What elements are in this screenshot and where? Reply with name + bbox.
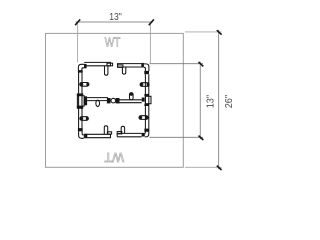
clamp band: left pipe top — [78, 70, 83, 73]
clamp frame: right sleeve wedge upper — [140, 83, 149, 87]
clamp frame: middle bar hanger oval left — [96, 100, 100, 106]
clamp frame: bottom-left corner elbow — [79, 131, 84, 138]
clamp frame: middle tie bar right half — [117, 100, 142, 103]
svg-text:13": 13" — [205, 95, 216, 109]
dimension 13in right: tick top — [199, 62, 204, 66]
clamp frame: top bar right end overlay plate — [118, 65, 123, 68]
clamp frame: bottom bar left wedge tab — [104, 126, 107, 135]
clamp frame: top-right corner elbow — [144, 64, 149, 71]
dimension 13in right: dimension line — [199, 62, 201, 140]
svg-text:WT: WT — [104, 150, 124, 164]
left sleeve lower dark caps — [80, 117, 83, 120]
clamp frame: top bar left end overlay plate — [107, 63, 113, 66]
clamp band: top-right junction — [141, 63, 144, 68]
dimension 26in right: dimension line — [218, 30, 220, 170]
dimension 26in right: extension line top — [185, 31, 222, 33]
clamp band: left pipe upper-middle — [77, 93, 83, 95]
left sleeve upper dark caps — [80, 83, 83, 86]
clamp frame: left sleeve wedge lower — [80, 117, 89, 121]
clamp frame: right sleeve wedge lower — [139, 116, 148, 120]
clamp frame: top-left corner elbow — [78, 64, 84, 70]
clamp band: left pipe lower-middle — [77, 106, 83, 109]
right sleeve lower dark caps — [139, 116, 142, 119]
clamp frame: top bar right segment — [118, 64, 142, 67]
middle tie bar right end plate — [142, 98, 145, 102]
clamp band: right pipe bottom — [144, 129, 149, 132]
right sleeve upper dark caps — [140, 83, 143, 86]
dimension 13in right: extension line top — [150, 63, 204, 65]
clamp band: right pipe upper-middle — [144, 94, 149, 96]
clamp band: left pipe bottom — [78, 128, 83, 131]
clamp band: right pipe lower-middle — [144, 104, 149, 106]
clamp band: bottom-left junction — [84, 134, 88, 138]
clamp frame: left clamp box — [77, 96, 84, 106]
svg-text:13": 13" — [109, 11, 122, 23]
clamp frame: bottom bar left end overlay plate — [107, 132, 111, 134]
center pin circle — [111, 98, 116, 103]
clamp frame: left pipe — [79, 70, 82, 131]
clamp band: right pipe top — [144, 71, 149, 74]
dimension 13in right: tick bottom — [199, 136, 204, 140]
clamp band: bottom-right junction — [142, 133, 145, 137]
clamp frame: right pipe — [145, 74, 148, 129]
dimension 13in top: tick left — [75, 19, 80, 25]
clamp frame: bottom bar left segment — [84, 134, 110, 137]
clamp frame: right clamp box — [145, 96, 151, 103]
hanger capsule right dark cap — [130, 93, 133, 96]
dimension 13in top: dimension line — [76, 21, 154, 23]
clamp frame: bottom bar right wedge tab — [121, 126, 124, 133]
middle tie bar left end plate — [84, 96, 87, 105]
clamp frame: top bar right wedge tab — [122, 67, 125, 74]
dimension 13in top: tick right — [149, 19, 154, 25]
dimension 13in right: extension line bottom — [150, 136, 204, 138]
center pin side block left — [107, 98, 111, 103]
center pin side block right — [116, 98, 120, 103]
clamp frame: bottom-right corner elbow — [145, 129, 149, 137]
clamp frame: middle tie bar left half — [87, 98, 108, 101]
dimension 13in top: extension line right — [149, 24, 151, 64]
dimension 13in top: extension line left — [77, 24, 79, 63]
svg-text:26": 26" — [224, 95, 235, 109]
clamp frame: bottom bar right end overlay plate — [117, 132, 122, 134]
clamp frame: bottom bar right segment — [117, 133, 141, 136]
clamp frame: left sleeve wedge upper — [80, 83, 89, 87]
clamp frame: top bar left wedge tab — [105, 66, 108, 75]
svg-text:WT: WT — [105, 35, 121, 49]
outer formwork square (26in) — [46, 33, 184, 167]
clamp frame: top bar left segment — [84, 62, 110, 65]
dimension 26in right: tick bottom — [217, 166, 222, 170]
dimension 26in right: tick top — [217, 30, 222, 34]
clamp frame: middle bar hanger capsule right — [130, 93, 134, 100]
dimension 26in right: extension line bottom — [185, 166, 222, 168]
clamp band: top-left junction — [84, 64, 87, 68]
